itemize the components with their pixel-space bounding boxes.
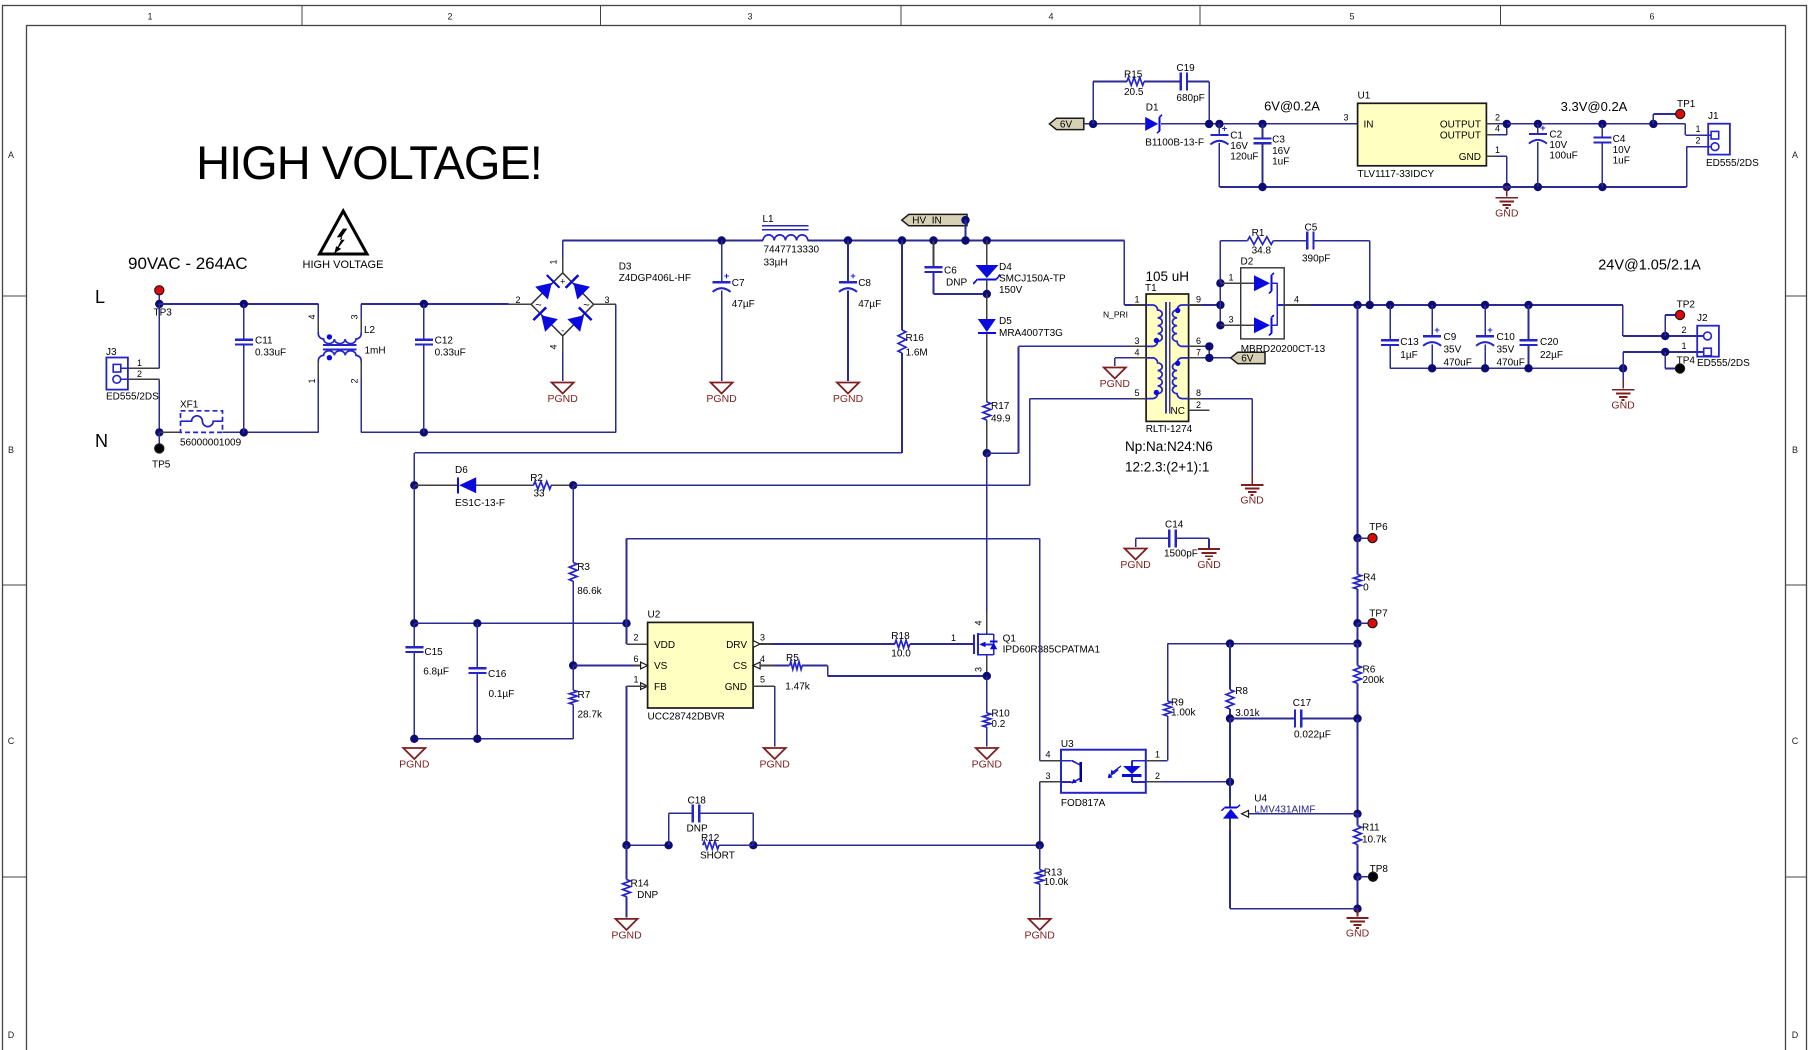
- svg-text:C19: C19: [1176, 63, 1195, 74]
- svg-text:C8: C8: [858, 278, 871, 289]
- svg-text:R7: R7: [578, 690, 591, 701]
- svg-text:C3: C3: [1272, 135, 1285, 146]
- svg-text:MBRD20200CT-13: MBRD20200CT-13: [1241, 344, 1326, 355]
- diode D1: [1145, 103, 1204, 149]
- svg-text:ED555/2DS: ED555/2DS: [1706, 158, 1759, 169]
- svg-text:20.5: 20.5: [1124, 87, 1144, 98]
- svg-text:6: 6: [633, 654, 638, 664]
- capacitor C6: [925, 241, 987, 295]
- wire VDD rail: [414, 622, 626, 624]
- svg-text:GND: GND: [1346, 928, 1370, 940]
- net label 6V at T1: [1231, 352, 1265, 364]
- junction C8 top: [844, 236, 852, 244]
- resistor R14: [623, 845, 659, 917]
- svg-text:SHORT: SHORT: [700, 851, 735, 862]
- resistor R5: [785, 653, 810, 693]
- svg-text:C18: C18: [688, 796, 707, 807]
- wire FB node line: [1168, 643, 1358, 645]
- junction snubber tap: [1353, 301, 1361, 309]
- svg-text:HV_IN: HV_IN: [912, 216, 941, 227]
- svg-text:PGND: PGND: [760, 759, 791, 771]
- svg-text:2: 2: [1155, 771, 1160, 781]
- svg-text:1: 1: [1681, 341, 1686, 351]
- svg-text:28.7k: 28.7k: [578, 710, 603, 721]
- svg-text:R14: R14: [631, 879, 650, 890]
- svg-text:1: 1: [147, 12, 152, 22]
- power ground PGND T1: [1100, 368, 1131, 391]
- svg-text:L2: L2: [364, 325, 376, 336]
- svg-text:1mH: 1mH: [365, 346, 386, 357]
- stub T1 pin2 NC: [1189, 400, 1210, 410]
- junction C16 bottom: [473, 735, 481, 743]
- svg-text:XF1: XF1: [180, 400, 199, 411]
- shunt regulator U4: [1222, 782, 1316, 909]
- svg-text:D3: D3: [619, 262, 632, 273]
- connector J1: [1695, 111, 1759, 169]
- svg-text:A: A: [8, 150, 14, 160]
- optocoupler U3: [1061, 739, 1146, 809]
- wire bridge pin1 to HV bus: [562, 241, 564, 273]
- svg-text:GND: GND: [1240, 495, 1264, 507]
- svg-text:PGND: PGND: [548, 393, 579, 405]
- svg-text:CS: CS: [733, 661, 747, 672]
- junction C11 top: [240, 300, 248, 308]
- junction R13 top: [1036, 841, 1044, 849]
- wire T1 pin4 to PGND: [1115, 358, 1146, 366]
- svg-text:1: 1: [137, 358, 142, 368]
- svg-text:C11: C11: [255, 336, 273, 347]
- svg-text:IPD60R385CPATMA1: IPD60R385CPATMA1: [1003, 645, 1101, 656]
- svg-text:TP3: TP3: [154, 308, 173, 319]
- junction C4 top: [1598, 120, 1606, 128]
- svg-text:35V: 35V: [1444, 345, 1462, 356]
- svg-text:J3: J3: [106, 347, 117, 358]
- junction C10 top: [1481, 301, 1489, 309]
- svg-text:1500pF: 1500pF: [1164, 549, 1198, 560]
- wire VDD feed: [627, 539, 648, 644]
- svg-text:Z4DGP406L-HF: Z4DGP406L-HF: [619, 273, 691, 284]
- label 24V output: [1598, 258, 1701, 274]
- wire 3.3V return rail: [1219, 147, 1708, 187]
- svg-text:3: 3: [604, 295, 609, 305]
- svg-text:R15: R15: [1124, 70, 1143, 81]
- svg-text:GND: GND: [1197, 559, 1221, 571]
- test point TP3: [154, 286, 173, 319]
- svg-text:16V: 16V: [1230, 141, 1248, 152]
- svg-text:ED555/2DS: ED555/2DS: [1697, 358, 1750, 369]
- test point TP7: [1358, 609, 1389, 628]
- svg-text:ED555/2DS: ED555/2DS: [106, 392, 159, 403]
- junction U1 out: [1503, 120, 1511, 128]
- wire R16 bottom link: [414, 453, 902, 486]
- junction TP4 tap: [1661, 348, 1669, 356]
- ground GND T1 pin8: [1240, 485, 1264, 507]
- junction D4 top: [983, 236, 991, 244]
- label 90VAC - 264AC: [128, 254, 248, 273]
- svg-text:10V: 10V: [1613, 145, 1631, 156]
- svg-text:D5: D5: [999, 316, 1012, 327]
- wire bridge pin2: [508, 303, 531, 305]
- svg-text:0.33uF: 0.33uF: [435, 348, 466, 359]
- wire VDD aux line: [573, 484, 1030, 486]
- svg-text:4: 4: [1045, 750, 1050, 760]
- svg-text:C: C: [8, 736, 15, 746]
- resistor R15: [1093, 70, 1181, 124]
- node N junction at TP5: [155, 428, 163, 436]
- svg-text:U4: U4: [1254, 794, 1267, 805]
- ground GND 24V: [1611, 368, 1635, 411]
- svg-text:3: 3: [760, 633, 765, 643]
- svg-text:IN: IN: [1364, 120, 1374, 131]
- svg-text:1uF: 1uF: [1613, 156, 1630, 167]
- resistor R6: [1354, 644, 1386, 719]
- svg-text:L1: L1: [763, 214, 775, 225]
- svg-text:5: 5: [1349, 12, 1354, 22]
- svg-text:~: ~: [583, 300, 589, 312]
- junction GND bottom: [1353, 905, 1361, 913]
- svg-text:1: 1: [633, 675, 638, 685]
- svg-text:DRV: DRV: [726, 640, 747, 651]
- junction R17 bottom: [983, 449, 991, 457]
- svg-text:ES1C-13-F: ES1C-13-F: [455, 498, 505, 509]
- svg-text:0.022µF: 0.022µF: [1294, 730, 1331, 741]
- dual diode D2: [1220, 257, 1325, 356]
- svg-text:100uF: 100uF: [1549, 151, 1577, 162]
- svg-text:NC: NC: [1171, 406, 1185, 417]
- wire J2 pin1 link: [1623, 352, 1697, 368]
- svg-text:22µF: 22µF: [1540, 350, 1563, 361]
- svg-text:DNP: DNP: [637, 890, 658, 901]
- svg-text:3: 3: [1228, 315, 1233, 325]
- wire U3 pin1: [1146, 750, 1168, 761]
- svg-text:390pF: 390pF: [1302, 254, 1330, 265]
- label 6V output: [1264, 99, 1320, 114]
- junction C2 top: [1534, 120, 1542, 128]
- junction C10 bottom: [1481, 364, 1489, 372]
- svg-text:10.0: 10.0: [891, 649, 911, 660]
- junction U1 gnd: [1503, 183, 1511, 191]
- wire U3 pin4: [1040, 539, 1061, 761]
- wire FB bottom line: [627, 844, 1040, 846]
- node L junction at TP3: [155, 300, 163, 308]
- junction Q1 source: [983, 672, 991, 680]
- voltage regulator U1: [1358, 91, 1487, 181]
- svg-text:C13: C13: [1400, 337, 1419, 348]
- svg-text:1: 1: [1155, 750, 1160, 760]
- svg-text:105 uH: 105 uH: [1146, 269, 1190, 284]
- junction C9 top: [1428, 301, 1436, 309]
- svg-text:3: 3: [974, 667, 984, 672]
- svg-text:C1: C1: [1230, 131, 1243, 142]
- capacitor C19: [1176, 63, 1209, 124]
- svg-text:B: B: [1792, 445, 1798, 455]
- wire J3 pin1 to L: [128, 304, 159, 368]
- resistor R9: [1164, 644, 1197, 761]
- controller U2: [633, 610, 765, 723]
- svg-text:150V: 150V: [999, 285, 1023, 296]
- junction D4-D5 node: [983, 290, 991, 298]
- svg-text:PGND: PGND: [1120, 559, 1151, 571]
- svg-text:PGND: PGND: [1025, 929, 1056, 941]
- wire VS line: [573, 665, 647, 667]
- ground GND U1: [1495, 187, 1519, 220]
- junction R8 top: [1226, 639, 1234, 647]
- svg-text:47µF: 47µF: [732, 299, 755, 310]
- svg-text:C14: C14: [1165, 520, 1184, 531]
- svg-text:R11: R11: [1362, 823, 1380, 834]
- svg-text:L: L: [95, 287, 105, 307]
- svg-text:GND: GND: [725, 682, 747, 693]
- svg-text:+: +: [1487, 325, 1493, 336]
- svg-text:TP2: TP2: [1677, 300, 1696, 311]
- resistor R10: [983, 676, 1010, 747]
- capacitor C10: [1476, 305, 1525, 369]
- svg-text:J1: J1: [1708, 111, 1719, 122]
- svg-text:2: 2: [137, 369, 142, 379]
- svg-text:N: N: [95, 431, 108, 451]
- label 3.3V output: [1561, 99, 1628, 114]
- junction C15 bottom: [410, 735, 418, 743]
- test point TP5: [152, 432, 171, 470]
- svg-text:+: +: [724, 271, 730, 282]
- capacitor C16: [468, 623, 514, 739]
- svg-text:Np:Na:N24:N6: Np:Na:N24:N6: [1125, 439, 1213, 454]
- capacitor C9: [1423, 305, 1472, 369]
- junction C12 top: [420, 300, 428, 308]
- wire N net segment B: [361, 431, 616, 433]
- junction C20 bottom: [1524, 364, 1532, 372]
- resistor R4: [1354, 538, 1377, 623]
- svg-text:R17: R17: [991, 401, 1010, 412]
- svg-text:OUTPUT: OUTPUT: [1440, 131, 1481, 142]
- wire U3 pin2: [1146, 771, 1230, 782]
- svg-text:8: 8: [1196, 388, 1201, 398]
- svg-text:2: 2: [1495, 112, 1500, 122]
- resistor R18: [891, 631, 974, 660]
- svg-text:TP7: TP7: [1369, 609, 1388, 620]
- power ground PGND R10: [972, 748, 1003, 771]
- svg-text:16V: 16V: [1272, 146, 1290, 157]
- junction TP8: [1353, 873, 1361, 881]
- svg-text:4: 4: [549, 344, 559, 349]
- svg-text:TP1: TP1: [1677, 99, 1696, 110]
- svg-text:0: 0: [1363, 583, 1369, 594]
- svg-text:VDD: VDD: [654, 640, 675, 651]
- capacitor C17: [1230, 698, 1358, 741]
- label L: [95, 287, 105, 307]
- resistor R17: [983, 401, 1011, 453]
- test point TP2: [1661, 300, 1695, 341]
- wire analog bottom rail: [414, 738, 573, 740]
- svg-text:9: 9: [1196, 295, 1201, 305]
- svg-text:SMCJ150A-TP: SMCJ150A-TP: [999, 274, 1066, 285]
- wire T1 pin5: [1030, 399, 1146, 486]
- junction C17 right: [1353, 714, 1361, 722]
- capacitor C7: [713, 241, 755, 382]
- svg-text:6V: 6V: [1241, 354, 1254, 365]
- svg-text:49.9: 49.9: [991, 414, 1011, 425]
- wire J3 pin2 to N: [128, 379, 159, 432]
- wire R17 to T1 pin3: [987, 346, 1146, 453]
- svg-text:N_PRI: N_PRI: [1103, 310, 1128, 320]
- junction FB node right: [1353, 639, 1361, 647]
- label N: [95, 431, 108, 451]
- junction C20 top: [1524, 301, 1532, 309]
- resistor R13: [1036, 845, 1069, 917]
- junction T1 pin9 node: [1216, 301, 1224, 309]
- pin3 label U1: [1343, 113, 1348, 123]
- capacitor C5 snubber: [1302, 223, 1370, 306]
- svg-text:10.7k: 10.7k: [1362, 835, 1387, 846]
- connector J3: [106, 347, 159, 403]
- wire VDD to opto line: [627, 538, 1040, 540]
- wire bridge pin3 to N: [594, 304, 616, 432]
- wire U2 GND pin: [753, 686, 775, 746]
- transformer T1: [1103, 269, 1201, 435]
- svg-text:R2: R2: [530, 473, 543, 484]
- svg-text:B1100B-13-F: B1100B-13-F: [1145, 138, 1204, 149]
- svg-text:C7: C7: [732, 278, 745, 289]
- svg-text:GND: GND: [1495, 208, 1519, 220]
- svg-text:1: 1: [951, 633, 956, 643]
- svg-text:HIGH VOLTAGE!: HIGH VOLTAGE!: [196, 136, 542, 189]
- svg-text:C6: C6: [944, 266, 957, 277]
- wire primary switch node: [986, 453, 988, 612]
- svg-text:34.8: 34.8: [1252, 246, 1272, 257]
- wire R6 bottom to ref: [1357, 719, 1359, 814]
- svg-text:6.8µF: 6.8µF: [423, 667, 449, 678]
- svg-text:TP5: TP5: [152, 460, 171, 471]
- svg-text:47µF: 47µF: [858, 299, 881, 310]
- junction C16 top: [473, 619, 481, 627]
- wire to GND bottom: [1357, 877, 1359, 909]
- capacitor C1: [1210, 124, 1258, 187]
- svg-text:VS: VS: [654, 661, 668, 672]
- capacitor C14: [1136, 520, 1209, 560]
- svg-text:C16: C16: [488, 669, 507, 680]
- svg-text:3.01k: 3.01k: [1235, 708, 1260, 719]
- svg-text:1.6M: 1.6M: [906, 348, 928, 359]
- fuse XF1: [159, 400, 241, 449]
- junction C17 left: [1226, 714, 1234, 722]
- svg-text:FB: FB: [654, 682, 667, 693]
- diode D6: [414, 465, 533, 509]
- net label HV_IN: [902, 214, 970, 240]
- test point TP8: [1358, 864, 1389, 881]
- svg-text:R12: R12: [701, 833, 720, 844]
- capacitor C2: [1529, 123, 1578, 187]
- title text HIGH VOLTAGE!: [196, 136, 542, 189]
- svg-text:+: +: [1434, 325, 1440, 336]
- svg-text:R16: R16: [906, 333, 925, 344]
- svg-text:C9: C9: [1444, 332, 1457, 343]
- svg-text:Q1: Q1: [1003, 634, 1017, 645]
- svg-text:0.2: 0.2: [991, 719, 1005, 730]
- power ground PGND C7: [706, 383, 737, 406]
- wire 24V output rail: [1311, 305, 1697, 336]
- net label 6V at D1: [1049, 118, 1083, 130]
- svg-text:5: 5: [1134, 388, 1139, 398]
- svg-text:90VAC - 264AC: 90VAC - 264AC: [128, 254, 248, 273]
- svg-text:R3: R3: [577, 562, 590, 573]
- svg-text:D1: D1: [1146, 103, 1159, 114]
- power ground PGND bridge: [548, 383, 579, 406]
- svg-text:OUTPUT: OUTPUT: [1440, 120, 1481, 131]
- capacitor C18: [669, 796, 754, 846]
- svg-text:4: 4: [974, 620, 984, 625]
- wire 3.3V rail: [1507, 124, 1708, 135]
- resistor R1 snubber: [1220, 228, 1307, 283]
- svg-text:PGND: PGND: [706, 393, 737, 405]
- wire R8 bottom to opto: [1229, 719, 1231, 782]
- wire U1 pin2 out: [1486, 112, 1506, 124]
- svg-text:GND: GND: [1611, 400, 1635, 412]
- svg-text:2: 2: [515, 295, 520, 305]
- svg-text:C17: C17: [1293, 698, 1312, 709]
- junction D2 pin3: [1216, 321, 1224, 329]
- svg-text:5: 5: [760, 675, 765, 685]
- junction C19 tap: [1205, 120, 1213, 128]
- svg-text:24V@1.05/2.1A: 24V@1.05/2.1A: [1598, 258, 1701, 274]
- power ground PGND C8: [833, 383, 864, 406]
- junction U4 ref tap: [1353, 810, 1361, 818]
- junction C5 tap: [1366, 301, 1374, 309]
- capacitor C13: [1381, 305, 1419, 368]
- svg-text:10V: 10V: [1549, 140, 1567, 151]
- wire DRV line: [760, 643, 895, 645]
- wire U3 pin3: [1040, 771, 1061, 845]
- svg-text:6V: 6V: [1060, 120, 1073, 131]
- power ground PGND U2: [760, 748, 791, 771]
- resistor R7: [569, 666, 603, 739]
- junction FB left: [622, 841, 630, 849]
- svg-text:1.47k: 1.47k: [785, 682, 810, 693]
- svg-text:1uF: 1uF: [1272, 157, 1289, 168]
- svg-text:3: 3: [350, 314, 360, 319]
- svg-text:4: 4: [760, 654, 765, 664]
- power ground PGND C15: [399, 748, 430, 771]
- label turns ratio 2: [1125, 460, 1209, 475]
- svg-text:1: 1: [549, 259, 559, 264]
- wire T1 pin9: [1189, 304, 1221, 306]
- junction VS node: [569, 661, 577, 669]
- svg-text:UCC28742DBVR: UCC28742DBVR: [648, 712, 725, 723]
- svg-text:7: 7: [1196, 347, 1201, 357]
- capacitor C20: [1520, 305, 1564, 368]
- junction C9 bottom: [1428, 364, 1436, 372]
- warning triangle icon: [303, 211, 384, 271]
- svg-text:+: +: [1222, 124, 1228, 135]
- svg-text:3: 3: [1343, 113, 1348, 123]
- svg-text:4: 4: [1294, 295, 1299, 305]
- svg-text:470uF: 470uF: [1444, 358, 1472, 369]
- svg-text:D6: D6: [455, 465, 468, 476]
- svg-text:2: 2: [350, 378, 360, 383]
- svg-text:R8: R8: [1235, 686, 1248, 697]
- capacitor C3: [1254, 124, 1291, 187]
- svg-text:~: ~: [535, 300, 541, 312]
- capacitor C11: [235, 304, 286, 432]
- svg-text:0.1µF: 0.1µF: [489, 689, 515, 700]
- junction D6 node: [410, 481, 418, 489]
- power ground PGND R14: [611, 919, 642, 942]
- svg-text:C4: C4: [1613, 134, 1626, 145]
- svg-text:PGND: PGND: [399, 759, 430, 771]
- svg-text:U3: U3: [1061, 739, 1074, 750]
- svg-text:TP4: TP4: [1677, 356, 1696, 367]
- svg-text:3: 3: [1045, 771, 1050, 781]
- wire 24V return rail: [1390, 367, 1623, 369]
